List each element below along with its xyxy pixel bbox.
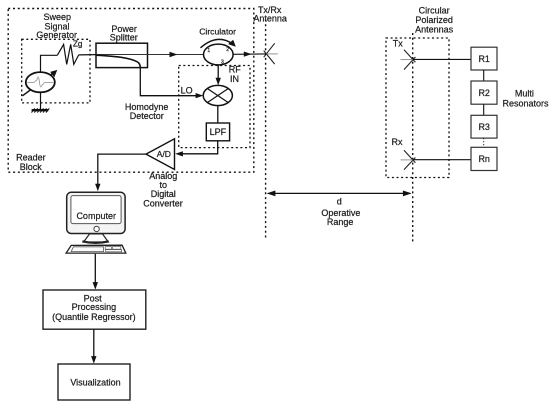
wire mixer to LPF: [217, 106, 219, 123]
resonator R2: [471, 81, 497, 104]
svg-text:R1: R1: [478, 54, 490, 64]
dashed antenna reference line left: [265, 20, 267, 240]
wire circulator port3 down to mixer: [217, 65, 219, 82]
resonator R1: [471, 47, 497, 70]
AC sweep source G1: [26, 72, 55, 92]
ground: [32, 92, 50, 112]
arrowhead into A/D: [175, 151, 183, 156]
circulator: [204, 44, 234, 65]
wire source top to resistor: [41, 55, 58, 72]
wire R1 to R2: [483, 70, 485, 81]
wire A/D to computer: [98, 154, 146, 188]
svg-text:Detector: Detector: [130, 111, 164, 121]
svg-text:Computer: Computer: [76, 211, 116, 221]
svg-text:R2: R2: [478, 88, 490, 98]
splitter coupled-port curve: [96, 55, 140, 67]
wire circulator to antenna: [233, 53, 266, 55]
svg-text:Circulator: Circulator: [199, 27, 236, 37]
reader block dashed box: [8, 9, 254, 173]
resistor Zg: [57, 44, 78, 64]
svg-text:1: 1: [207, 48, 210, 54]
arrowhead toward antenna: [244, 52, 252, 57]
arrowhead toward circulator: [170, 52, 178, 57]
sweep signal generator dashed box: [22, 39, 90, 103]
svg-text:Circular: Circular: [419, 5, 450, 15]
svg-text:Rx: Rx: [392, 137, 403, 147]
svg-text:2: 2: [226, 47, 229, 53]
RF IN arrowhead: [216, 78, 221, 85]
svg-text:Splitter: Splitter: [110, 32, 138, 42]
LPF box: [206, 123, 229, 141]
svg-text:Block: Block: [20, 162, 43, 172]
svg-text:A/D: A/D: [157, 149, 171, 159]
wire Rx antenna to Rn: [413, 159, 471, 161]
LO arrowhead into mixer: [196, 93, 204, 98]
svg-text:Processing: Processing: [72, 302, 117, 312]
svg-text:Antenna: Antenna: [253, 14, 287, 24]
wire Tx antenna to R1: [413, 58, 471, 60]
wire computer to post processing: [94, 254, 96, 286]
svg-text:Zg: Zg: [73, 40, 83, 49]
svg-text:Resonators: Resonators: [502, 99, 549, 109]
svg-text:R3: R3: [478, 122, 490, 132]
svg-text:Reader: Reader: [16, 152, 46, 162]
operative range arrow d: [267, 191, 412, 197]
through line splitter to circulator: [96, 54, 204, 56]
svg-text:Converter: Converter: [143, 198, 183, 208]
wire R2 to R3: [483, 104, 485, 115]
wire post processing to visualization: [93, 329, 95, 360]
svg-text:Tx: Tx: [393, 39, 403, 49]
wire splitter down and LO into mixer: [140, 68, 200, 96]
arrowhead into computer: [95, 184, 100, 192]
svg-text:Rn: Rn: [478, 154, 490, 164]
Tx antenna symbol: [401, 50, 416, 70]
svg-text:Multi: Multi: [515, 88, 534, 98]
computer monitor: [67, 192, 125, 233]
homodyne detector dashed box: [179, 66, 250, 148]
variable-source arrow through generator: [23, 70, 58, 96]
computer stand: [82, 234, 108, 243]
svg-text:Range: Range: [327, 217, 354, 227]
resonator R3: [471, 115, 497, 138]
power splitter box: [96, 43, 148, 67]
dotted wire R3 to Rn: [483, 138, 485, 147]
wire LPF to A/D: [179, 141, 218, 154]
svg-text:LO: LO: [181, 85, 193, 95]
dashed antenna reference line right: [412, 33, 414, 244]
mixer U1: [203, 85, 232, 105]
svg-text:d: d: [337, 197, 342, 207]
svg-text:Visualization: Visualization: [70, 378, 120, 388]
svg-text:3: 3: [221, 59, 224, 65]
visualization box: [58, 364, 130, 400]
circular polarized antennas dashed box: [386, 38, 449, 178]
svg-text:IN: IN: [230, 74, 239, 84]
svg-text:Generator: Generator: [36, 30, 77, 40]
svg-text:LPF: LPF: [210, 127, 227, 137]
svg-text:Polarized: Polarized: [415, 15, 453, 25]
Rx antenna symbol: [401, 150, 416, 169]
post processing box: [43, 290, 146, 329]
svg-text:Antennas: Antennas: [415, 24, 454, 34]
arrowhead into post processing: [93, 282, 98, 290]
arrowhead into visualization: [91, 356, 96, 364]
resonator Rn: [471, 147, 497, 170]
svg-text:(Quantile Regressor): (Quantile Regressor): [52, 312, 136, 322]
Tx/Rx antenna symbol: [264, 43, 278, 64]
wire resistor to power splitter: [79, 54, 96, 56]
computer keyboard: [66, 245, 126, 253]
circulator rotation arrow: [201, 39, 236, 47]
A/D converter triangle: [146, 139, 175, 170]
